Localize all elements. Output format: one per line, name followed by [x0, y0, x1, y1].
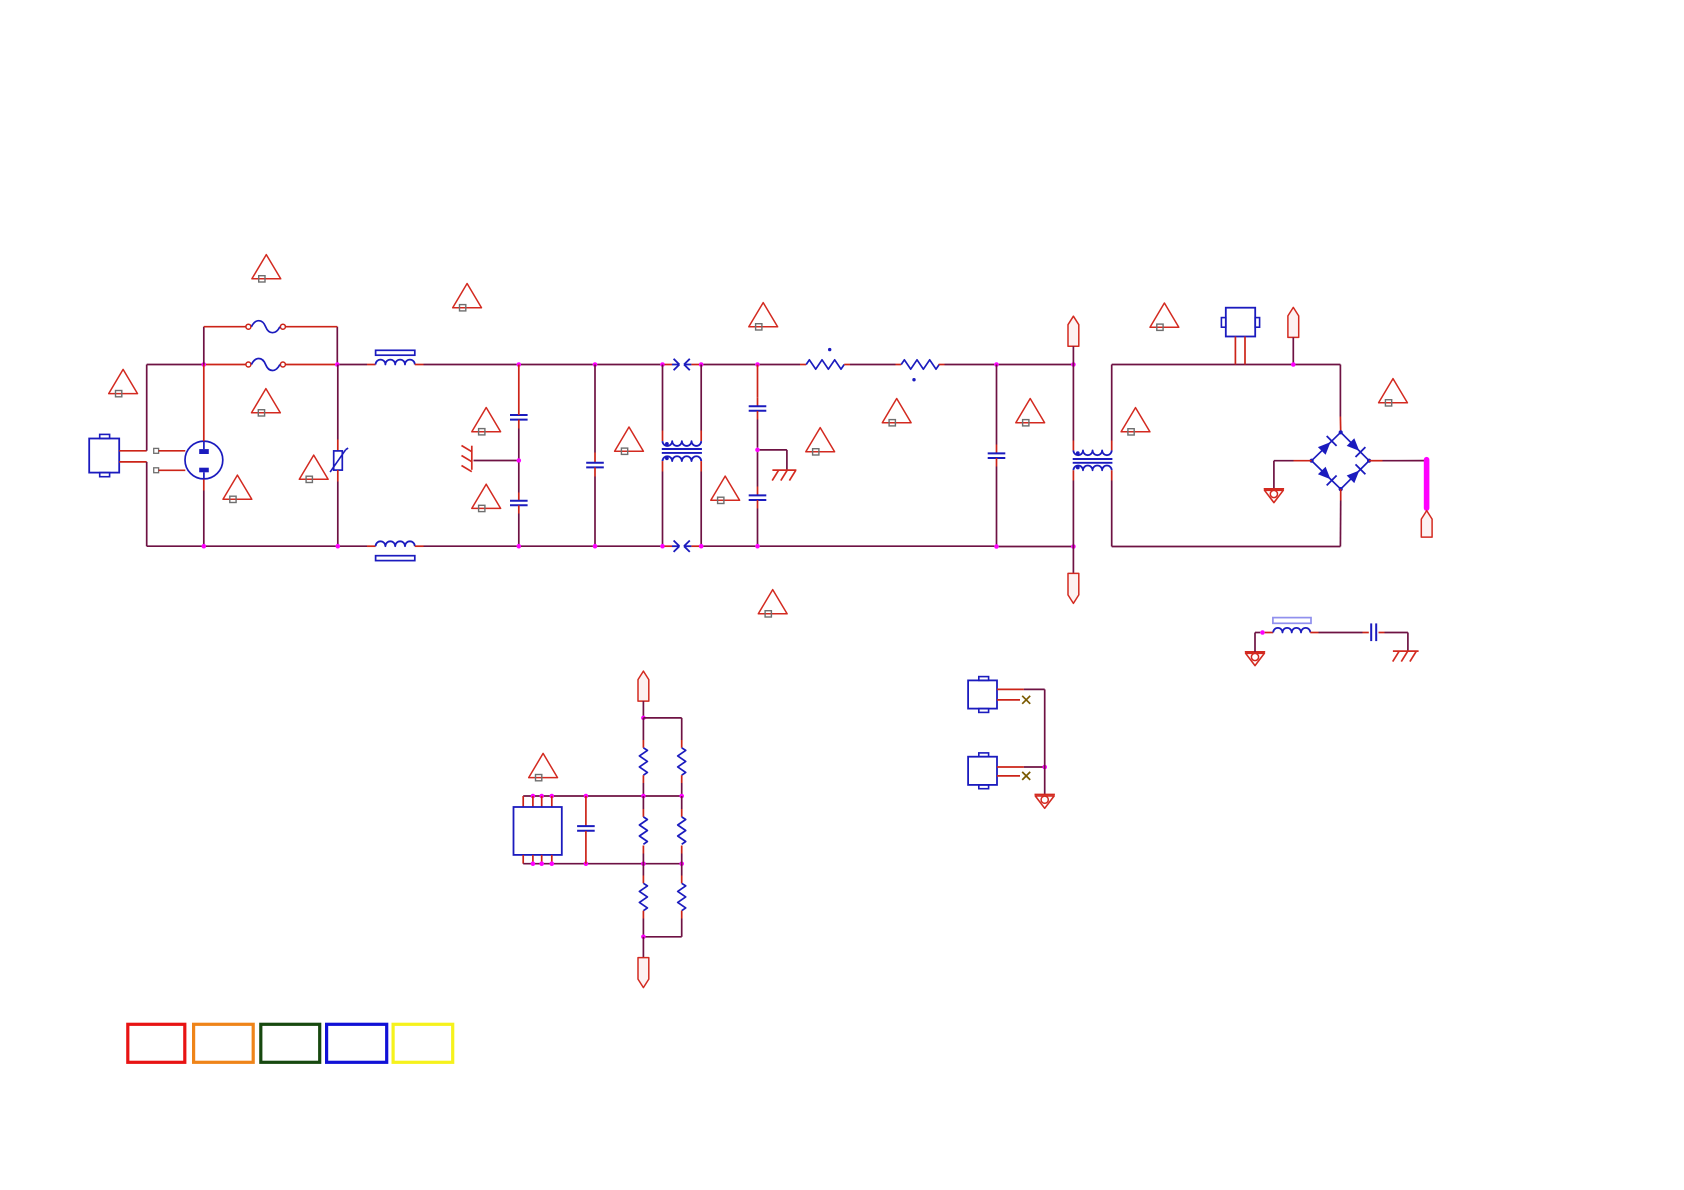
inductor L4 — [1273, 628, 1310, 633]
IC U1 — [514, 807, 562, 855]
wire fuse F1 left lead — [204, 326, 246, 328]
node bottom bus right chain — [679, 861, 684, 866]
node snubber junction — [1260, 630, 1265, 635]
wire fuse bypass right vertical — [336, 327, 338, 365]
wire cap branch1 upper — [518, 365, 520, 416]
node choke T1 bottom left — [1071, 544, 1076, 549]
capacitor C3 — [586, 463, 604, 468]
node cap branch 2 top — [593, 362, 598, 367]
resistor R4 — [678, 748, 686, 775]
wire right box top rail — [1112, 364, 1341, 366]
choke T1 top winding — [1073, 450, 1111, 455]
resistor R6 — [678, 817, 686, 844]
wire choke T1 right upper lead — [1111, 365, 1113, 451]
node spark gap left top — [660, 362, 665, 367]
capacitor C5 — [749, 495, 767, 500]
wire R8 wrap to bottom junction — [643, 911, 681, 937]
node cap branch 3 top — [755, 362, 760, 367]
wire bridge plus lead — [1369, 460, 1424, 462]
wire R6 to bottom bus — [681, 846, 683, 864]
terminal TP1 — [1068, 316, 1079, 346]
wire choke L3 right lower lead — [700, 461, 702, 546]
wire SW1 leg 1 — [1234, 337, 1236, 365]
marker dot above R1 — [828, 348, 831, 351]
resistor R1 — [806, 360, 844, 369]
warning triangle 10 — [1016, 399, 1045, 426]
wire fuse F1 right lead — [285, 326, 337, 328]
earth ground symbol — [772, 470, 796, 481]
wire choke L3 left lower lead — [662, 461, 664, 546]
wire between R1 and R2 — [844, 364, 901, 366]
wire cap branch1 bottom — [518, 505, 520, 546]
wire connector ground vertical — [1044, 689, 1046, 794]
inductor L2 core bar — [376, 556, 415, 561]
IC U1 top pins — [523, 796, 552, 807]
wire cap branch2 upper — [594, 365, 596, 463]
warning triangle 14 — [299, 455, 328, 482]
wire choke T1 left upper lead — [1072, 365, 1074, 451]
wire choke T1 left lower lead — [1072, 470, 1074, 546]
node varistor bottom rail junction — [336, 544, 341, 549]
wire fuse bypass left vertical — [203, 327, 205, 365]
node mid bus left chain — [641, 794, 646, 799]
spark gap SG2 bottom rail — [665, 541, 700, 552]
node TP3 rail junction — [1291, 362, 1296, 367]
wire left chain upper lead — [642, 718, 644, 748]
node fuse-out junction — [335, 362, 340, 367]
terminal TP2 — [1068, 573, 1079, 603]
wire bottom rail spark gap to choke node — [703, 545, 1071, 547]
inductor L2 — [376, 541, 415, 546]
highlighted output net bar — [1424, 457, 1430, 511]
wire top rail cap1 node to cap2 node — [521, 364, 593, 366]
node spark gap left bottom — [660, 544, 665, 549]
wire cap branch3 middle — [757, 411, 759, 448]
fuse F2 — [246, 359, 286, 371]
signal ground connectors — [1035, 795, 1055, 809]
terminal TP6 — [638, 958, 649, 988]
node mid bus right chain — [679, 794, 684, 799]
legend box red — [128, 1024, 185, 1062]
node choke T1 top left — [1071, 362, 1076, 367]
legend box blue — [327, 1024, 387, 1062]
node bottom bus pin2 — [531, 861, 536, 866]
wire top rail cap2 node to spark gap — [597, 364, 660, 366]
warning triangle 9 — [882, 399, 911, 426]
wire top rail inductor to cap node — [415, 364, 517, 366]
wire cap branch3 bottom — [757, 500, 759, 546]
node cap branch 4 top — [994, 362, 999, 367]
warning triangle 7 — [472, 408, 501, 435]
node mid bus pin4 — [550, 794, 555, 799]
wire left chain lower upper — [642, 864, 644, 884]
wire J1 line pin to left bus — [119, 450, 147, 452]
wire bottom rail inductor L2 to spark gap — [415, 545, 661, 547]
warning triangle 18 — [758, 590, 787, 617]
warning triangle 3 — [749, 303, 778, 330]
legend box yellow — [393, 1024, 453, 1062]
wire R3 to mid bus — [642, 775, 644, 796]
wire chassis tap horizontal — [474, 460, 517, 462]
node J3 pin1 junction — [1042, 765, 1047, 770]
signal ground snubber — [1245, 652, 1265, 666]
wire bridge top lead — [1339, 365, 1341, 433]
resistor R2 — [901, 360, 939, 369]
wire lamp pin1 lead — [159, 450, 186, 452]
wire bottom rail left segment — [147, 545, 202, 547]
wire left bus vertical lower — [146, 462, 148, 546]
inductor L4 core bar — [1273, 618, 1311, 624]
wire right chain lower upper — [681, 864, 683, 884]
wire cap branch1 lower — [518, 463, 520, 501]
wire snubber node to inductor L4 — [1265, 632, 1274, 634]
node bottom bus pin4 — [550, 861, 555, 866]
warning triangle 17 — [806, 428, 835, 455]
common-mode choke L3 bottom winding — [663, 456, 702, 461]
wire left bus vertical upper — [146, 365, 148, 451]
wire right chain mid upper — [681, 796, 683, 817]
wire fuse F2 right lead — [285, 364, 335, 366]
resistor R8 — [678, 883, 686, 910]
wire cap branch4 upper — [996, 365, 998, 454]
node bottom bus pin3 — [539, 861, 544, 866]
wire fuse F2 left lead — [206, 364, 246, 366]
terminal TP5 — [638, 671, 649, 701]
wire choke T1 right lower lead — [1111, 470, 1113, 546]
legend box dark-green — [261, 1024, 320, 1062]
fuse F1 — [246, 321, 286, 333]
node spark gap right top — [699, 362, 704, 367]
node divider bottom junction — [641, 935, 646, 940]
wire top rail cap4 node to choke node — [999, 364, 1071, 366]
wire lamp top lead — [203, 365, 205, 442]
wire right box bottom rail — [1112, 546, 1341, 548]
connector J2 — [968, 677, 997, 713]
wire J3 pin2 stub — [997, 775, 1020, 777]
resistor R7 — [639, 883, 647, 910]
wire capacitor C7 lower lead — [585, 831, 587, 864]
warning triangle 2 — [453, 284, 482, 311]
wire cap branch1 middle — [518, 420, 520, 459]
wire bridge minus lead — [1274, 461, 1312, 489]
wire left chain mid upper — [642, 796, 644, 817]
warning triangle 4 — [1150, 303, 1179, 330]
no-connect X J3 pin2 — [1022, 772, 1030, 780]
chassis ground symbol — [462, 446, 472, 472]
wire bottom bus — [523, 863, 682, 865]
node lamp bottom rail junction — [202, 544, 207, 549]
node chassis tap junction — [517, 458, 522, 463]
connector J3 — [968, 753, 997, 789]
node mid bus cap — [584, 794, 589, 799]
wire divider top branch — [643, 718, 681, 748]
node cap branch 1 top — [517, 362, 522, 367]
capacitor C7 — [577, 826, 595, 831]
wire lamp pin2 lead — [159, 469, 186, 471]
wire R5 to bottom bus — [642, 846, 644, 864]
choke T1 bottom winding — [1073, 466, 1111, 471]
wire TP2 stem — [1072, 547, 1074, 575]
wire top rail spark gap to cap3 node — [703, 364, 755, 366]
wire lamp bottom lead — [203, 479, 205, 546]
pin marker lamp pin 1 — [154, 448, 159, 453]
node bottom bus cap — [584, 861, 589, 866]
wire J1 neutral pin to left bus — [119, 461, 147, 463]
warning triangle 19 — [529, 753, 558, 780]
wire choke L3 right upper lead — [700, 365, 702, 442]
terminal TP3 — [1288, 307, 1299, 337]
wire J2 pin2 stub — [997, 699, 1020, 701]
wire TP6 stem — [642, 937, 644, 959]
capacitor C1 — [510, 415, 528, 420]
no-connect X J2 pin2 — [1022, 696, 1030, 704]
resistor R3 — [639, 748, 647, 775]
bridge rectifier BR1 — [1310, 430, 1372, 491]
wire SW1 leg 2 — [1244, 337, 1246, 365]
wire earth tap — [760, 450, 787, 470]
warning triangle 12 — [1379, 379, 1408, 406]
warning triangle 8 — [615, 427, 644, 454]
marker dot below R2 — [912, 378, 915, 381]
resistor R5 — [639, 817, 647, 844]
warning triangle 13 — [223, 475, 252, 502]
wire R2 to cap4 node — [939, 364, 995, 366]
node fuse-in junction — [202, 362, 207, 367]
wire cap branch2 lower — [594, 467, 596, 546]
earth ground snubber — [1393, 651, 1419, 662]
wire cap branch4 lower — [996, 458, 998, 547]
varistor RV1 — [330, 448, 348, 472]
node cap branch4 bottom rail — [994, 544, 999, 549]
node earth tap junction — [755, 448, 760, 453]
terminal TP4 — [1421, 511, 1432, 537]
wire J3 pin1 — [997, 766, 1043, 768]
warning triangle 1 — [252, 255, 281, 282]
legend box orange — [194, 1024, 254, 1062]
choke T1 core — [1073, 459, 1113, 463]
wire capacitor C8 to earth — [1379, 633, 1408, 652]
node mid bus pin2 — [531, 794, 536, 799]
common-mode choke L3 top winding — [663, 441, 702, 446]
warning triangle 6 — [252, 389, 281, 416]
AC inlet plug J1 — [89, 434, 119, 476]
wire bottom rail lamp to varistor node — [206, 545, 336, 547]
wire R4 to mid bus — [681, 775, 683, 796]
warning triangle 11 — [1121, 408, 1150, 435]
wire mid bus — [523, 795, 682, 797]
wire R7 to bottom junction — [642, 911, 644, 937]
wire cap branch3 upper — [757, 365, 759, 407]
common-mode choke L3 core — [662, 449, 702, 453]
wire TP1 to top rail — [1072, 346, 1074, 364]
warning triangle 5 — [109, 369, 138, 396]
node cap branch1 bottom rail — [517, 544, 522, 549]
capacitor C6 — [988, 453, 1006, 458]
wire snubber ground stem — [1255, 633, 1260, 652]
capacitor C4 — [749, 406, 767, 411]
wire capacitor C7 upper lead — [585, 796, 587, 826]
warning triangle 15 — [472, 484, 501, 511]
node divider top junction — [641, 716, 646, 721]
varistor RV1 bottom lead — [337, 470, 339, 546]
wire top rail from left edge to fuse node — [147, 364, 202, 366]
varistor RV1 top lead — [337, 365, 339, 451]
node cap branch3 bottom rail — [755, 544, 760, 549]
wire TP5 stem — [642, 701, 644, 718]
spark gap SG1 top rail — [665, 359, 700, 370]
node spark gap right bottom — [699, 544, 704, 549]
thermal switch SW1 — [1221, 308, 1259, 337]
wire inductor L4 to capacitor C8 — [1310, 632, 1369, 634]
wire TP3 to rail — [1292, 337, 1294, 364]
signal ground at bridge — [1264, 489, 1284, 503]
wire top rail cap3 node to resistor R1 — [760, 364, 807, 366]
node bottom bus left chain — [641, 861, 646, 866]
pin marker lamp pin 2 — [154, 468, 159, 473]
capacitor C2 — [510, 501, 528, 506]
IC U1 bottom pins — [523, 855, 552, 864]
wire cap branch3 lower — [757, 452, 759, 495]
neon lamp NE1 — [185, 441, 223, 479]
wire bridge bottom lead — [1339, 489, 1341, 546]
capacitor C8 — [1371, 623, 1376, 641]
inductor L1 — [376, 360, 415, 365]
node mid bus pin3 — [539, 794, 544, 799]
warning triangle 16 — [711, 476, 740, 503]
node cap branch2 bottom rail — [593, 544, 598, 549]
wire J2 pin1 — [997, 688, 1045, 690]
wire top rail fuse-out to inductor — [340, 364, 376, 366]
wire bottom rail varistor node to inductor L2 — [340, 545, 376, 547]
wire choke L3 left upper lead — [662, 365, 664, 442]
inductor L1 core bar — [376, 350, 415, 355]
